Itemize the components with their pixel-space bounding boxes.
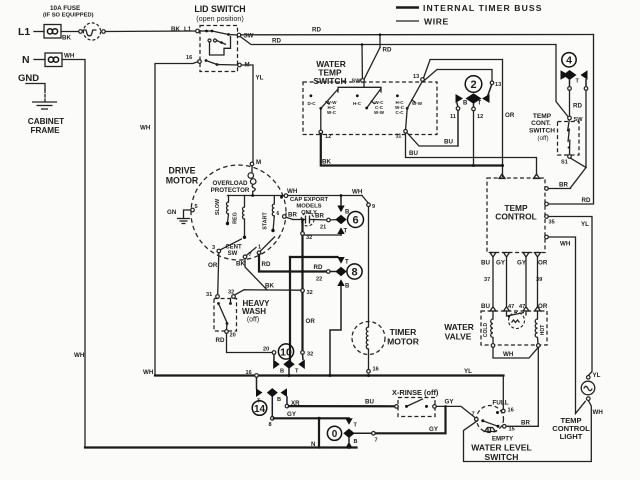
svg-text:GN: GN [167,209,177,216]
centrifugal switch [212,237,275,259]
wire WH neutral left [62,53,85,448]
svg-text:WH: WH [593,409,604,416]
svg-text:YL: YL [464,368,472,375]
wire BU water temp 11 to contact 2 [407,110,458,146]
svg-text:YL: YL [256,75,264,82]
svg-text:MOTOR: MOTOR [166,176,199,186]
svg-text:HOT: HOT [540,325,546,336]
water valve hot solenoid [535,311,546,347]
svg-text:(open position): (open position) [196,14,244,23]
node L1 [18,26,44,38]
wire water level 7 loop to light [464,401,592,462]
svg-text:BR: BR [559,182,568,189]
temp cont switch (off) [529,113,586,188]
wire RD motor 1 to contact 8 and 10 [259,255,336,361]
svg-text:WH: WH [74,352,85,359]
svg-text:BR: BR [521,420,530,427]
wire BU water temp 11 to temp control [406,133,537,175]
svg-text:MOTOR: MOTOR [387,337,420,347]
svg-text:RD: RD [582,197,591,204]
svg-text:WH: WH [140,125,151,132]
svg-text:RD: RD [262,261,271,268]
wires temp control to water valve [481,257,548,307]
svg-text:12: 12 [477,114,483,120]
wire RD drop from top bus to water temp SW [361,33,392,79]
temp control [487,174,548,257]
node N [22,54,45,66]
svg-text:M: M [256,159,261,166]
cap export models only [277,197,336,231]
svg-text:YL: YL [581,221,589,228]
wire OR 32 vertical [301,218,316,351]
svg-text:START: START [263,212,269,230]
timer motor [352,322,420,374]
svg-text:RD: RD [216,337,225,344]
svg-text:B: B [463,101,468,107]
svg-text:10: 10 [280,347,292,359]
svg-text:OR: OR [208,262,218,269]
svg-text:13: 13 [495,82,501,88]
svg-text:H-C: H-C [353,101,362,106]
svg-text:GY: GY [445,399,455,406]
reg winding [233,196,247,240]
wire RD heavy wash 20 to contact 10 [216,333,273,352]
start winding [263,196,275,233]
svg-text:RD: RD [272,38,281,45]
svg-text:7: 7 [472,412,475,418]
svg-text:BK: BK [62,35,71,42]
svg-text:16: 16 [508,408,514,414]
legend internal timer buss [396,3,543,13]
svg-text:RD: RD [314,264,323,271]
svg-text:T: T [576,79,580,85]
svg-text:14: 14 [254,404,266,415]
timer contact 4 [561,53,588,168]
connector plug N [45,53,62,67]
svg-text:SLOW: SLOW [215,198,221,215]
svg-text:(off): (off) [537,135,548,142]
wire N neutral bottom [85,441,357,448]
svg-text:TEMP: TEMP [533,113,552,120]
svg-text:L1: L1 [184,26,192,33]
svg-text:31: 31 [206,292,212,298]
water temp switch [313,59,346,86]
svg-text:GY: GY [517,260,527,267]
slow winding [215,196,229,226]
timer contact 14 [252,377,300,428]
svg-text:B: B [277,397,281,403]
svg-text:LIGHT: LIGHT [560,432,583,441]
svg-text:BU: BU [409,150,418,157]
wire BR temp control to temp cont switch [548,182,570,189]
svg-text:WIRE: WIRE [424,17,449,27]
svg-text:YL: YL [593,372,601,379]
motor internal bus to WH terminal 9 [228,188,298,199]
svg-text:CONTROL: CONTROL [495,212,536,222]
fuse F1 10A [43,5,105,40]
svg-text:0: 0 [332,429,338,440]
svg-text:B: B [354,439,358,445]
svg-text:W-W: W-W [412,101,423,106]
connector plug L1 [44,25,61,39]
timer contact 0 [327,418,377,448]
svg-text:6: 6 [277,211,280,217]
svg-text:T: T [344,229,348,235]
svg-text:21: 21 [320,225,326,231]
svg-text:BR: BR [315,213,324,220]
svg-text:PROTECTOR: PROTECTOR [211,187,250,194]
svg-text:C-C: C-C [396,110,405,115]
svg-text:11: 11 [450,114,456,120]
svg-text:37: 37 [484,277,490,283]
svg-text:WH: WH [352,189,363,196]
svg-text:B: B [345,284,350,290]
svg-text:35: 35 [549,220,555,226]
wire BR water valve to water level 15 [537,347,539,426]
svg-text:T: T [354,423,358,429]
svg-text:DRIVE: DRIVE [169,166,196,176]
svg-text:FULL: FULL [492,400,508,407]
svg-text:SWITCH: SWITCH [529,128,555,135]
svg-text:22: 22 [316,277,322,283]
svg-text:(off): (off) [247,317,259,324]
wire BR water level 15 [506,420,538,427]
svg-text:GY: GY [496,260,506,267]
wire YL lid switch M to drive motor M [241,65,263,162]
svg-text:B: B [280,369,284,375]
ground cabinet frame [28,102,64,135]
svg-text:11: 11 [396,134,402,140]
svg-text:6: 6 [352,215,358,227]
svg-text:16: 16 [373,367,379,373]
svg-text:BK: BK [171,26,180,33]
svg-text:EMPTY: EMPTY [492,436,514,443]
svg-text:TIMER: TIMER [390,327,418,337]
motor ground GN [167,204,198,224]
wire WH motor to terminal 9 [288,189,375,211]
wire WH water valve common [493,347,538,358]
svg-text:BK: BK [236,261,245,268]
svg-text:VALVE: VALVE [445,332,472,342]
svg-text:N: N [22,54,30,66]
svg-text:OR: OR [505,112,515,119]
node GND [18,73,45,101]
legend wire [396,17,449,27]
svg-text:WH: WH [287,188,298,195]
temp control light [552,372,603,441]
svg-text:1: 1 [258,245,261,251]
svg-text:D-C: D-C [308,101,317,106]
svg-text:RD: RD [312,27,321,34]
svg-text:32: 32 [307,290,313,296]
svg-text:WH: WH [503,351,514,358]
svg-text:BK: BK [265,283,274,290]
heavy wash switch (off) [206,290,270,339]
timer contact 6 [303,194,364,235]
wire YL temp control 35 to light [548,217,592,376]
timer contact 10 [263,344,313,376]
wire RD temp control from L1 bus [548,35,593,205]
svg-text:BU: BU [481,303,490,310]
svg-text:SW: SW [228,251,238,257]
svg-text:WH: WH [560,241,571,248]
svg-text:SWITCH: SWITCH [313,76,346,86]
svg-text:3: 3 [212,245,215,251]
svg-text:4: 4 [566,55,572,67]
wire BK buss water temp 12 to temp control [321,134,504,167]
svg-text:INTERNAL TIMER BUSS: INTERNAL TIMER BUSS [423,3,543,13]
svg-text:GY: GY [287,411,297,418]
water valve cold solenoid [483,311,495,347]
svg-text:BK: BK [322,159,331,166]
svg-text:T: T [345,260,349,266]
svg-text:OVERLOAD: OVERLOAD [212,180,248,187]
svg-text:RD: RD [383,47,392,54]
svg-text:8: 8 [351,267,357,279]
wire BK L1 to fuse [61,32,79,42]
svg-text:WATER: WATER [444,322,474,332]
svg-text:N: N [311,441,316,448]
wire OR motor 3 to heavy wash 31 [208,253,219,295]
overload protector [211,166,256,196]
svg-text:BU: BU [365,399,374,406]
lid switch S1 (open position) [171,4,254,72]
svg-text:RD: RD [573,103,582,110]
svg-text:15: 15 [509,427,515,433]
svg-text:9: 9 [372,204,375,210]
wire 13 to temp control OR [424,60,515,177]
svg-text:OR: OR [538,260,548,267]
svg-text:GY: GY [429,426,439,433]
svg-text:S1: S1 [561,160,568,166]
wire 13 to timer contact 2 T [424,70,492,81]
svg-text:2: 2 [470,79,476,91]
svg-text:BU: BU [444,139,453,146]
svg-text:20: 20 [230,333,236,339]
svg-text:WH: WH [143,369,154,376]
timer contact 8 [330,257,362,376]
water temp switch body [303,74,437,140]
svg-text:16: 16 [246,370,252,376]
wire lid switch 16 to WH vertical [140,62,198,376]
water level switch [471,400,531,462]
svg-text:BR: BR [288,212,297,219]
svg-text:13: 13 [413,74,419,80]
svg-text:T: T [295,369,299,375]
wire N drop [318,418,320,447]
svg-text:MODELS: MODELS [296,204,321,210]
svg-text:T: T [478,101,482,107]
svg-text:7: 7 [375,438,378,444]
water valve [444,303,548,345]
water valve mixing switch [507,311,527,329]
svg-text:GND: GND [18,73,39,84]
svg-text:WH: WH [64,53,75,60]
main buss line 16 [143,368,504,377]
wire GY contact 0 out [375,406,445,433]
drive motor [166,159,286,260]
svg-text:8: 8 [269,422,272,428]
svg-text:CONT.: CONT. [531,120,551,127]
svg-text:20: 20 [263,347,269,353]
svg-text:OR: OR [306,318,316,325]
svg-text:REG: REG [233,212,239,224]
wire BK motor 7 to contact 8 T [236,256,338,291]
svg-text:SW: SW [244,33,254,40]
svg-text:CABINET: CABINET [28,117,64,126]
svg-text:SWITCH: SWITCH [485,452,519,462]
x-rinse switch (off) [392,388,439,417]
svg-text:5: 5 [195,204,198,210]
wire GY contact14 8 to contact 0 T [274,411,349,420]
svg-text:L1: L1 [18,26,30,38]
wire RD top bus SW to right edge [241,27,594,35]
svg-text:BU: BU [481,260,490,267]
svg-text:32: 32 [228,290,234,296]
timer contact 2 [450,76,501,166]
wire RD lid switch SW lower run [240,37,568,118]
wire WH temp control to light [548,237,585,414]
svg-text:10A FUSE: 10A FUSE [50,5,81,12]
wire GY x-rinse to water level 7 [436,399,476,419]
svg-text:(IF SO EQUIPPED): (IF SO EQUIPPED) [43,13,94,19]
svg-text:32: 32 [307,352,313,358]
svg-text:32: 32 [306,235,312,241]
svg-text:12: 12 [325,134,331,140]
svg-text:COLD: COLD [483,323,489,338]
svg-text:CAP EXPORT: CAP EXPORT [290,197,329,203]
wire fuse to lid switch [105,30,195,33]
svg-text:X-RINSE (off): X-RINSE (off) [392,388,439,397]
svg-text:LID SWITCH: LID SWITCH [194,4,245,14]
wire terminal 9 to timer motor [368,207,370,322]
svg-text:W-C: W-C [327,110,337,115]
svg-text:16: 16 [186,55,192,61]
svg-text:FRAME: FRAME [30,126,60,135]
svg-text:W-W: W-W [374,110,385,115]
wire water level 16 to YL buss [502,376,504,410]
wire BU contact14 XR to x-rinse [289,399,396,407]
svg-text:WASH: WASH [242,307,266,316]
